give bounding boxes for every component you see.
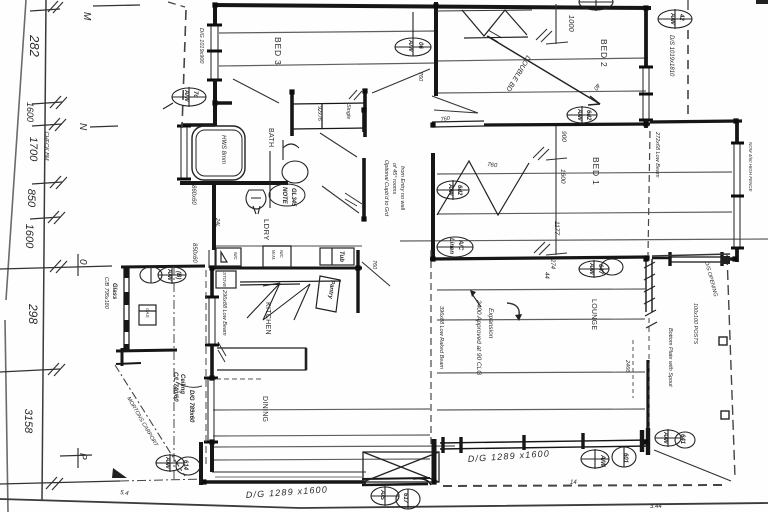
svg-text:A/W: A/W bbox=[588, 262, 594, 276]
tick at y218 bbox=[30, 211, 65, 224]
wall: wc right / hall left upper bbox=[362, 110, 366, 132]
dash-dot: porch centre line vertical bbox=[173, 266, 175, 480]
svg-text:1177: 1177 bbox=[553, 221, 560, 235]
tick bottom y482 bbox=[0, 477, 120, 490]
svg-text:KITCHEN: KITCHEN bbox=[264, 302, 271, 335]
svg-text:D/G 1019x900: D/G 1019x900 bbox=[198, 28, 204, 64]
fixture: tub box right bbox=[320, 248, 354, 265]
svg-text:272x68 Low Beam: 272x68 Low Beam bbox=[654, 131, 660, 178]
wall: top exterior bbox=[213, 5, 651, 8]
svg-text:396x88 Low Raked Beam: 396x88 Low Raked Beam bbox=[438, 306, 444, 369]
tag: bed3 left window bbox=[163, 87, 206, 109]
tick at y370 bbox=[0, 363, 65, 376]
wall: porch top bbox=[121, 266, 205, 267]
svg-text:LDRY: LDRY bbox=[262, 219, 271, 241]
svg-text:44: 44 bbox=[543, 272, 549, 279]
grid label P bbox=[60, 448, 92, 468]
arrow: squiggle lounge bbox=[507, 303, 519, 316]
wall: bed1-bed2 divider bbox=[484, 124, 650, 125]
svg-text:P: P bbox=[77, 453, 88, 460]
svg-text:HWS 8mm: HWS 8mm bbox=[220, 135, 226, 164]
svg-text:A/W: A/W bbox=[669, 12, 675, 26]
window: dining left bbox=[208, 378, 214, 442]
wall: lounge top (bed1 divider) bbox=[430, 257, 649, 259]
arrow: wc door bbox=[345, 193, 362, 206]
dash-dot: bottom centre line horizontal bbox=[120, 479, 205, 481]
wall: bed3 left solid bottom bbox=[213, 80, 217, 126]
svg-text:W.M.: W.M. bbox=[271, 250, 276, 260]
zigzag: bed1 robe bbox=[437, 161, 529, 215]
junction blobs bbox=[201, 2, 738, 484]
window: bed3 left bbox=[211, 25, 218, 80]
wall: ldry-kitchen divider left stub bbox=[214, 245, 362, 247]
svg-text:100x100 POSTS: 100x100 POSTS bbox=[692, 303, 698, 345]
svg-text:7c: 7c bbox=[192, 91, 198, 98]
svg-text:Expansion: Expansion bbox=[487, 308, 494, 339]
wall: kitchen-dining left solid bbox=[210, 268, 214, 297]
wall: bed1 top-right step bbox=[650, 121, 742, 122]
svg-text:617: 617 bbox=[402, 493, 408, 504]
door swing arrows: kitchen M bbox=[247, 283, 310, 320]
bench: kitchen bbox=[240, 281, 341, 285]
svg-text:5.4: 5.4 bbox=[120, 490, 130, 497]
svg-text:from Entry no wall: from Entry no wall bbox=[399, 166, 405, 211]
wall: bed1 bottom-right to lounge window bbox=[652, 252, 737, 266]
svg-text:1600: 1600 bbox=[23, 224, 35, 249]
svg-text:BED 2: BED 2 bbox=[599, 39, 609, 68]
dash-dot: deck right boundary bbox=[727, 255, 735, 478]
zigzag: bed2 robe doors bbox=[462, 10, 527, 36]
svg-text:298: 298 bbox=[26, 303, 40, 324]
svg-text:850x60: 850x60 bbox=[191, 243, 197, 263]
dim: 1000 vertical at top bed2 bbox=[536, 4, 568, 44]
svg-text:Glass: Glass bbox=[111, 283, 117, 300]
svg-text:06: 06 bbox=[417, 42, 423, 49]
dashed centre: lounge right opening bbox=[648, 318, 650, 428]
svg-text:NIC: NIC bbox=[279, 250, 284, 259]
svg-text:760: 760 bbox=[371, 260, 377, 270]
wall: dining lower-left outer jamb bbox=[199, 442, 203, 485]
tag: top middle clipped circle bbox=[579, 0, 613, 11]
wall: dining bottom bbox=[204, 472, 431, 485]
wall: kitchen right bbox=[356, 250, 359, 313]
svg-text:CHECK BM: CHECK BM bbox=[43, 131, 49, 160]
leader arrow: 2400 note bbox=[472, 294, 481, 307]
svg-text:2400 Approved at 90 CLG: 2400 Approved at 90 CLG bbox=[475, 299, 482, 375]
dim: 900 below divider bbox=[533, 126, 567, 160]
dashed: beam line kitchen left bbox=[205, 270, 207, 468]
grid label N bbox=[77, 123, 118, 131]
tag: linen ellipse bbox=[437, 237, 473, 257]
svg-text:NOTE: NOTE bbox=[281, 187, 287, 205]
svg-text:Linen: Linen bbox=[448, 238, 454, 254]
svg-text:BED 1: BED 1 bbox=[591, 157, 601, 186]
window: bath left bbox=[181, 127, 187, 179]
door swing: kitchen rear bbox=[362, 262, 390, 286]
diagonal: deck bottom edge bbox=[654, 450, 731, 481]
tag: lounge bottom circles bbox=[581, 447, 636, 469]
svg-text:BED 3: BED 3 bbox=[273, 37, 283, 66]
scribble circle: wc note bbox=[269, 184, 305, 206]
dim: 1177 bed1 bbox=[534, 160, 567, 255]
dashed: beam line bed1 right bbox=[648, 131, 650, 255]
svg-text:3158: 3158 bbox=[22, 409, 34, 434]
dashed: bottom boundary line bbox=[443, 485, 722, 486]
svg-text:D/G 789x60: D/G 789x60 bbox=[188, 390, 194, 423]
post: deck lower bbox=[721, 411, 729, 419]
fixture: washing machine box bbox=[263, 246, 291, 267]
svg-text:A/W: A/W bbox=[447, 183, 453, 197]
fixture: pantry slanted bbox=[316, 276, 340, 312]
wall: bed2 right lower stub bbox=[644, 120, 648, 128]
svg-text:NIC: NIC bbox=[233, 252, 238, 261]
svg-text:24L: 24L bbox=[214, 217, 220, 227]
wall: dining left bottom corner bbox=[210, 442, 214, 472]
post: deck middle bbox=[719, 337, 727, 345]
robe: bed3 wardrobe bbox=[292, 90, 365, 137]
wall: ldry bottom / kitchen top bbox=[212, 267, 362, 270]
svg-text:274: 274 bbox=[549, 258, 555, 270]
svg-text:BATH: BATH bbox=[267, 128, 274, 147]
tick 44 near robe bbox=[349, 90, 362, 100]
svg-text:900: 900 bbox=[560, 131, 567, 142]
annotation: 2400 approx lounge bbox=[475, 299, 494, 375]
svg-text:NOM 4/60 HIGH FENCE: NOM 4/60 HIGH FENCE bbox=[748, 142, 753, 193]
svg-text:C/L 740/60: C/L 740/60 bbox=[172, 372, 178, 402]
svg-text:A/W: A/W bbox=[164, 456, 170, 470]
border slanted outer line bbox=[5, 0, 26, 512]
tick at y183 bbox=[32, 176, 67, 189]
tick at y125 bbox=[32, 118, 66, 131]
svg-text:A/C: A/C bbox=[457, 239, 463, 251]
door: bed1 hall door leaf bbox=[432, 121, 484, 127]
fixture: wc pan bbox=[246, 190, 266, 214]
wall: bed1 right with window bbox=[735, 121, 739, 262]
wall: kitchen left with windows bbox=[209, 250, 215, 268]
fixture: laundry tub box bbox=[216, 248, 241, 266]
hatch: sliding door track bbox=[644, 262, 657, 328]
svg-text:M: M bbox=[81, 12, 92, 21]
bottom border line bbox=[0, 499, 768, 508]
dashed: beam line between dining and lounge bbox=[430, 250, 432, 445]
svg-text:2466: 2466 bbox=[624, 359, 630, 373]
svg-text:A/W: A/W bbox=[662, 431, 668, 445]
wall: bed1 left bbox=[431, 153, 435, 260]
wall: lounge bottom-right corner block bbox=[642, 428, 648, 455]
fixture: stove box bbox=[216, 271, 236, 288]
wall: bed3 left solid top bbox=[213, 3, 217, 26]
svg-text:1600: 1600 bbox=[25, 102, 35, 122]
svg-text:850: 850 bbox=[25, 189, 37, 208]
diagonal: bed2 wardrobe arrow bbox=[487, 30, 600, 105]
wall: porch lower-left jamb bbox=[121, 348, 124, 366]
svg-text:92x76: 92x76 bbox=[316, 106, 322, 122]
wall: bed2 right upper bbox=[644, 7, 648, 67]
svg-text:760: 760 bbox=[417, 72, 423, 82]
svg-text:0: 0 bbox=[77, 259, 88, 265]
grid label M bbox=[81, 5, 140, 21]
wall: corner dining-lounge vertical bbox=[432, 439, 437, 484]
post: deck top bbox=[721, 256, 730, 264]
svg-text:STOVE: STOVE bbox=[222, 272, 227, 288]
dash: dining beam stub bbox=[216, 378, 262, 380]
wall: lounge right with sliding door hatch bbox=[646, 259, 652, 432]
svg-text:C/B 795x180: C/B 795x180 bbox=[103, 277, 109, 310]
svg-text:GAS: GAS bbox=[145, 308, 150, 318]
fixture: vanity basin bbox=[270, 140, 308, 208]
svg-text:6d2: 6d2 bbox=[585, 110, 591, 121]
svg-text:of 45° rooms: of 45° rooms bbox=[391, 163, 397, 194]
tick 44 at y268 bbox=[50, 260, 67, 273]
svg-text:Optional Cupb'd to Grd: Optional Cupb'd to Grd bbox=[383, 160, 389, 217]
svg-text:A/W: A/W bbox=[166, 268, 172, 282]
robe front line bed2 bbox=[437, 10, 532, 11]
dashed: roofline top-right bbox=[687, 30, 689, 120]
tag: porch top circle bbox=[158, 266, 186, 284]
svg-text:42: 42 bbox=[678, 13, 684, 21]
svg-text:296x88 Low Beam: 296x88 Low Beam bbox=[221, 289, 227, 336]
svg-text:A/S: A/S bbox=[379, 489, 385, 500]
svg-text:A/W: A/W bbox=[576, 108, 582, 122]
svg-text:601: 601 bbox=[622, 453, 628, 464]
wall: deck top edge bbox=[652, 254, 730, 256]
svg-text:A/W: A/W bbox=[183, 89, 189, 103]
wall: hall left of bed2 bbox=[434, 2, 438, 96]
wall: bath protrusion top bbox=[181, 123, 215, 126]
door swing: wc bbox=[322, 186, 359, 213]
svg-text:LOUNGE: LOUNGE bbox=[590, 299, 597, 330]
grid label O with long line bbox=[0, 254, 112, 276]
svg-text:A/W: A/W bbox=[599, 454, 605, 468]
tag: porch top circle b bbox=[140, 267, 162, 283]
window: bed2 right bbox=[643, 67, 649, 120]
door swing: hall to bed1 zigzag bbox=[432, 96, 478, 113]
tag: bottom centre circles bbox=[371, 486, 420, 509]
svg-text:1000: 1000 bbox=[567, 15, 576, 33]
tag: porch bottom circles bbox=[156, 454, 200, 475]
svg-text:641: 641 bbox=[679, 434, 685, 445]
grid chain line bbox=[42, 0, 46, 500]
wall: porch left with window blocks bbox=[124, 267, 129, 352]
tag: bed3 top window bbox=[395, 12, 431, 56]
wall: bed3 bottom / bath top bbox=[215, 101, 232, 104]
door: dining sliding D/G with X brace bbox=[363, 452, 439, 482]
fixture: meter box bbox=[139, 305, 156, 325]
svg-text:1700: 1700 bbox=[27, 137, 39, 162]
label: mortons carport bbox=[115, 365, 185, 476]
wall: porch bottom bbox=[116, 350, 177, 351]
arrow: dining pointer bbox=[176, 382, 202, 387]
wall: ldry left bbox=[212, 183, 216, 250]
svg-text:860x60: 860x60 bbox=[190, 185, 196, 205]
svg-text:282: 282 bbox=[27, 34, 42, 57]
tick at y103 bbox=[32, 96, 67, 109]
wall: wc-ldry right / hall left lower bbox=[362, 158, 366, 220]
svg-text:Tub: Tub bbox=[338, 251, 344, 262]
dashed: roof overhang top-left bbox=[182, 10, 186, 128]
svg-text:A/W: A/W bbox=[407, 39, 413, 53]
annotation: optional cupbd bbox=[383, 160, 405, 217]
svg-text:Single: Single bbox=[345, 104, 351, 119]
bench: island bbox=[217, 348, 306, 370]
tag: top right circle bbox=[658, 0, 692, 29]
svg-text:3.44: 3.44 bbox=[650, 504, 662, 510]
tag: deck corner circles bbox=[655, 429, 695, 448]
svg-text:DINING: DINING bbox=[261, 396, 268, 422]
svg-text:(B): (B) bbox=[175, 271, 181, 279]
door swing: entry to bed2 bbox=[372, 69, 430, 93]
svg-text:GL345: GL345 bbox=[290, 188, 296, 207]
tick row top bbox=[30, 1, 63, 13]
wall: lounge bottom double bbox=[440, 433, 650, 453]
door swing: bed3 bbox=[233, 79, 279, 103]
svg-text:614: 614 bbox=[182, 460, 188, 471]
fixture: bath tub bbox=[192, 126, 245, 180]
svg-text:D/S 1019x1810: D/S 1019x1810 bbox=[668, 35, 674, 77]
svg-text:N: N bbox=[77, 123, 88, 131]
wall: bath bottom bbox=[180, 181, 288, 185]
tag: bed1 bottom circle bbox=[579, 259, 623, 278]
svg-text:Bottom Plate with Spout: Bottom Plate with Spout bbox=[667, 328, 673, 387]
tag: hall circle near bath bbox=[437, 180, 469, 200]
corner mark top right bbox=[756, 0, 768, 4]
svg-text:6d2: 6d2 bbox=[456, 185, 462, 196]
svg-text:647: 647 bbox=[597, 264, 603, 275]
door swing: bath bbox=[320, 133, 357, 157]
tag: bed2 bottom circle bbox=[567, 106, 597, 124]
svg-text:1600: 1600 bbox=[559, 169, 566, 184]
